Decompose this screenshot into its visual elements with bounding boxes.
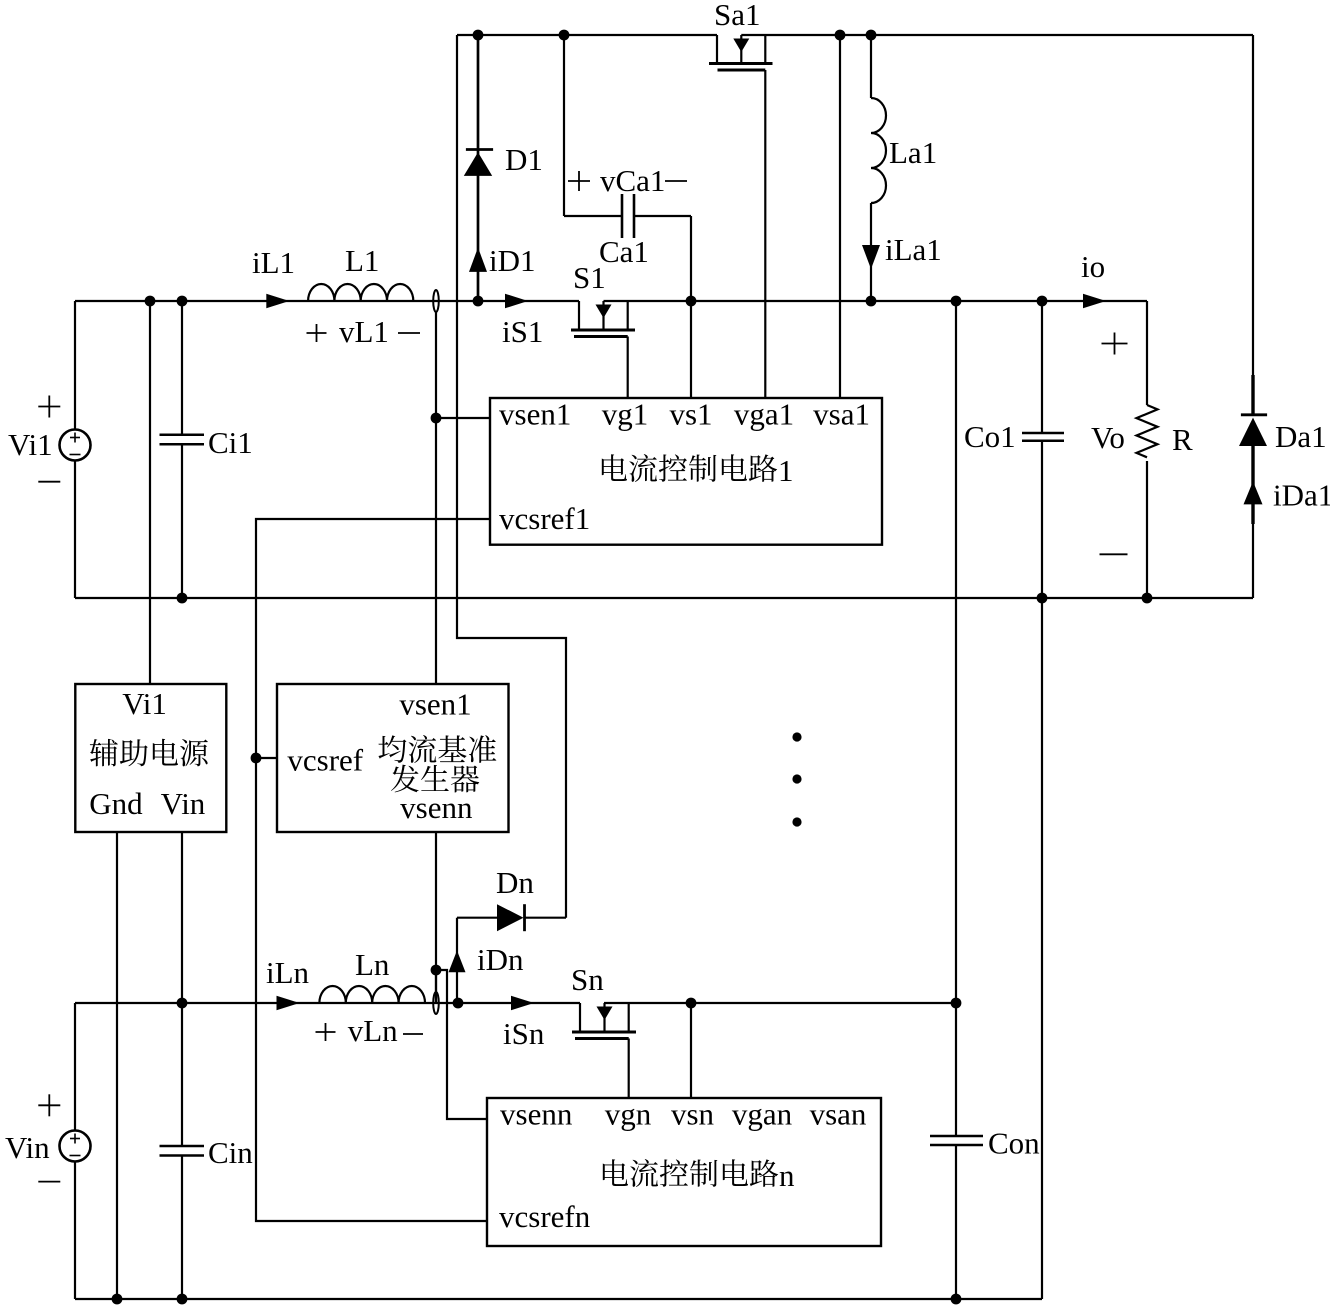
svg-text:iD1: iD1: [489, 243, 536, 278]
svg-text:vsa1: vsa1: [813, 397, 870, 432]
svg-text:vgan: vgan: [732, 1097, 793, 1132]
svg-text:iSn: iSn: [503, 1016, 545, 1051]
svg-text:Vo: Vo: [1091, 420, 1125, 455]
svg-text:Dn: Dn: [496, 865, 534, 900]
svg-text:n: n: [779, 1158, 795, 1193]
svg-text:vsen1: vsen1: [499, 397, 571, 432]
svg-text:iDn: iDn: [477, 942, 524, 977]
svg-text:vsn: vsn: [671, 1097, 715, 1132]
svg-text:R: R: [1172, 422, 1193, 457]
svg-text:iDa1: iDa1: [1273, 478, 1330, 513]
svg-text:vsenn: vsenn: [500, 1097, 573, 1132]
svg-text:Ca1: Ca1: [599, 234, 649, 269]
svg-text:Con: Con: [988, 1126, 1040, 1161]
svg-text:Da1: Da1: [1275, 419, 1327, 454]
svg-text:iS1: iS1: [502, 314, 543, 349]
svg-text:vgn: vgn: [605, 1097, 652, 1132]
svg-text:iLa1: iLa1: [885, 232, 942, 267]
svg-text:Ln: Ln: [355, 947, 390, 982]
svg-text:S1: S1: [573, 260, 606, 295]
svg-text:D1: D1: [505, 142, 543, 177]
svg-text:1: 1: [778, 453, 794, 488]
svg-text:Vin: Vin: [5, 1130, 50, 1165]
svg-text:Cin: Cin: [208, 1135, 253, 1170]
svg-text:vsan: vsan: [810, 1097, 867, 1132]
svg-text:Sa1: Sa1: [714, 0, 761, 32]
svg-text:L1: L1: [345, 243, 379, 278]
svg-text:Sn: Sn: [571, 962, 604, 997]
svg-text:vCa1: vCa1: [600, 163, 665, 198]
svg-text:vga1: vga1: [734, 397, 794, 432]
svg-text:io: io: [1081, 249, 1105, 284]
svg-text:Vi1: Vi1: [8, 427, 53, 462]
svg-text:Ci1: Ci1: [208, 425, 253, 460]
svg-text:vsenn: vsenn: [400, 790, 473, 825]
svg-text:vsen1: vsen1: [399, 687, 471, 722]
svg-text:vs1: vs1: [669, 397, 712, 432]
svg-text:Co1: Co1: [964, 419, 1016, 454]
svg-text:vcsref: vcsref: [287, 743, 363, 778]
svg-text:iLn: iLn: [266, 955, 310, 990]
svg-text:La1: La1: [889, 135, 937, 170]
svg-text:vL1: vL1: [339, 314, 389, 349]
svg-text:vLn: vLn: [348, 1013, 398, 1048]
svg-text:iL1: iL1: [252, 245, 295, 280]
svg-text:Vin: Vin: [161, 786, 206, 821]
svg-text:vg1: vg1: [602, 397, 649, 432]
svg-text:vcsref1: vcsref1: [499, 501, 590, 536]
svg-text:Vi1: Vi1: [122, 686, 167, 721]
svg-text:Gnd: Gnd: [89, 786, 143, 821]
svg-text:vcsrefn: vcsrefn: [499, 1199, 591, 1234]
